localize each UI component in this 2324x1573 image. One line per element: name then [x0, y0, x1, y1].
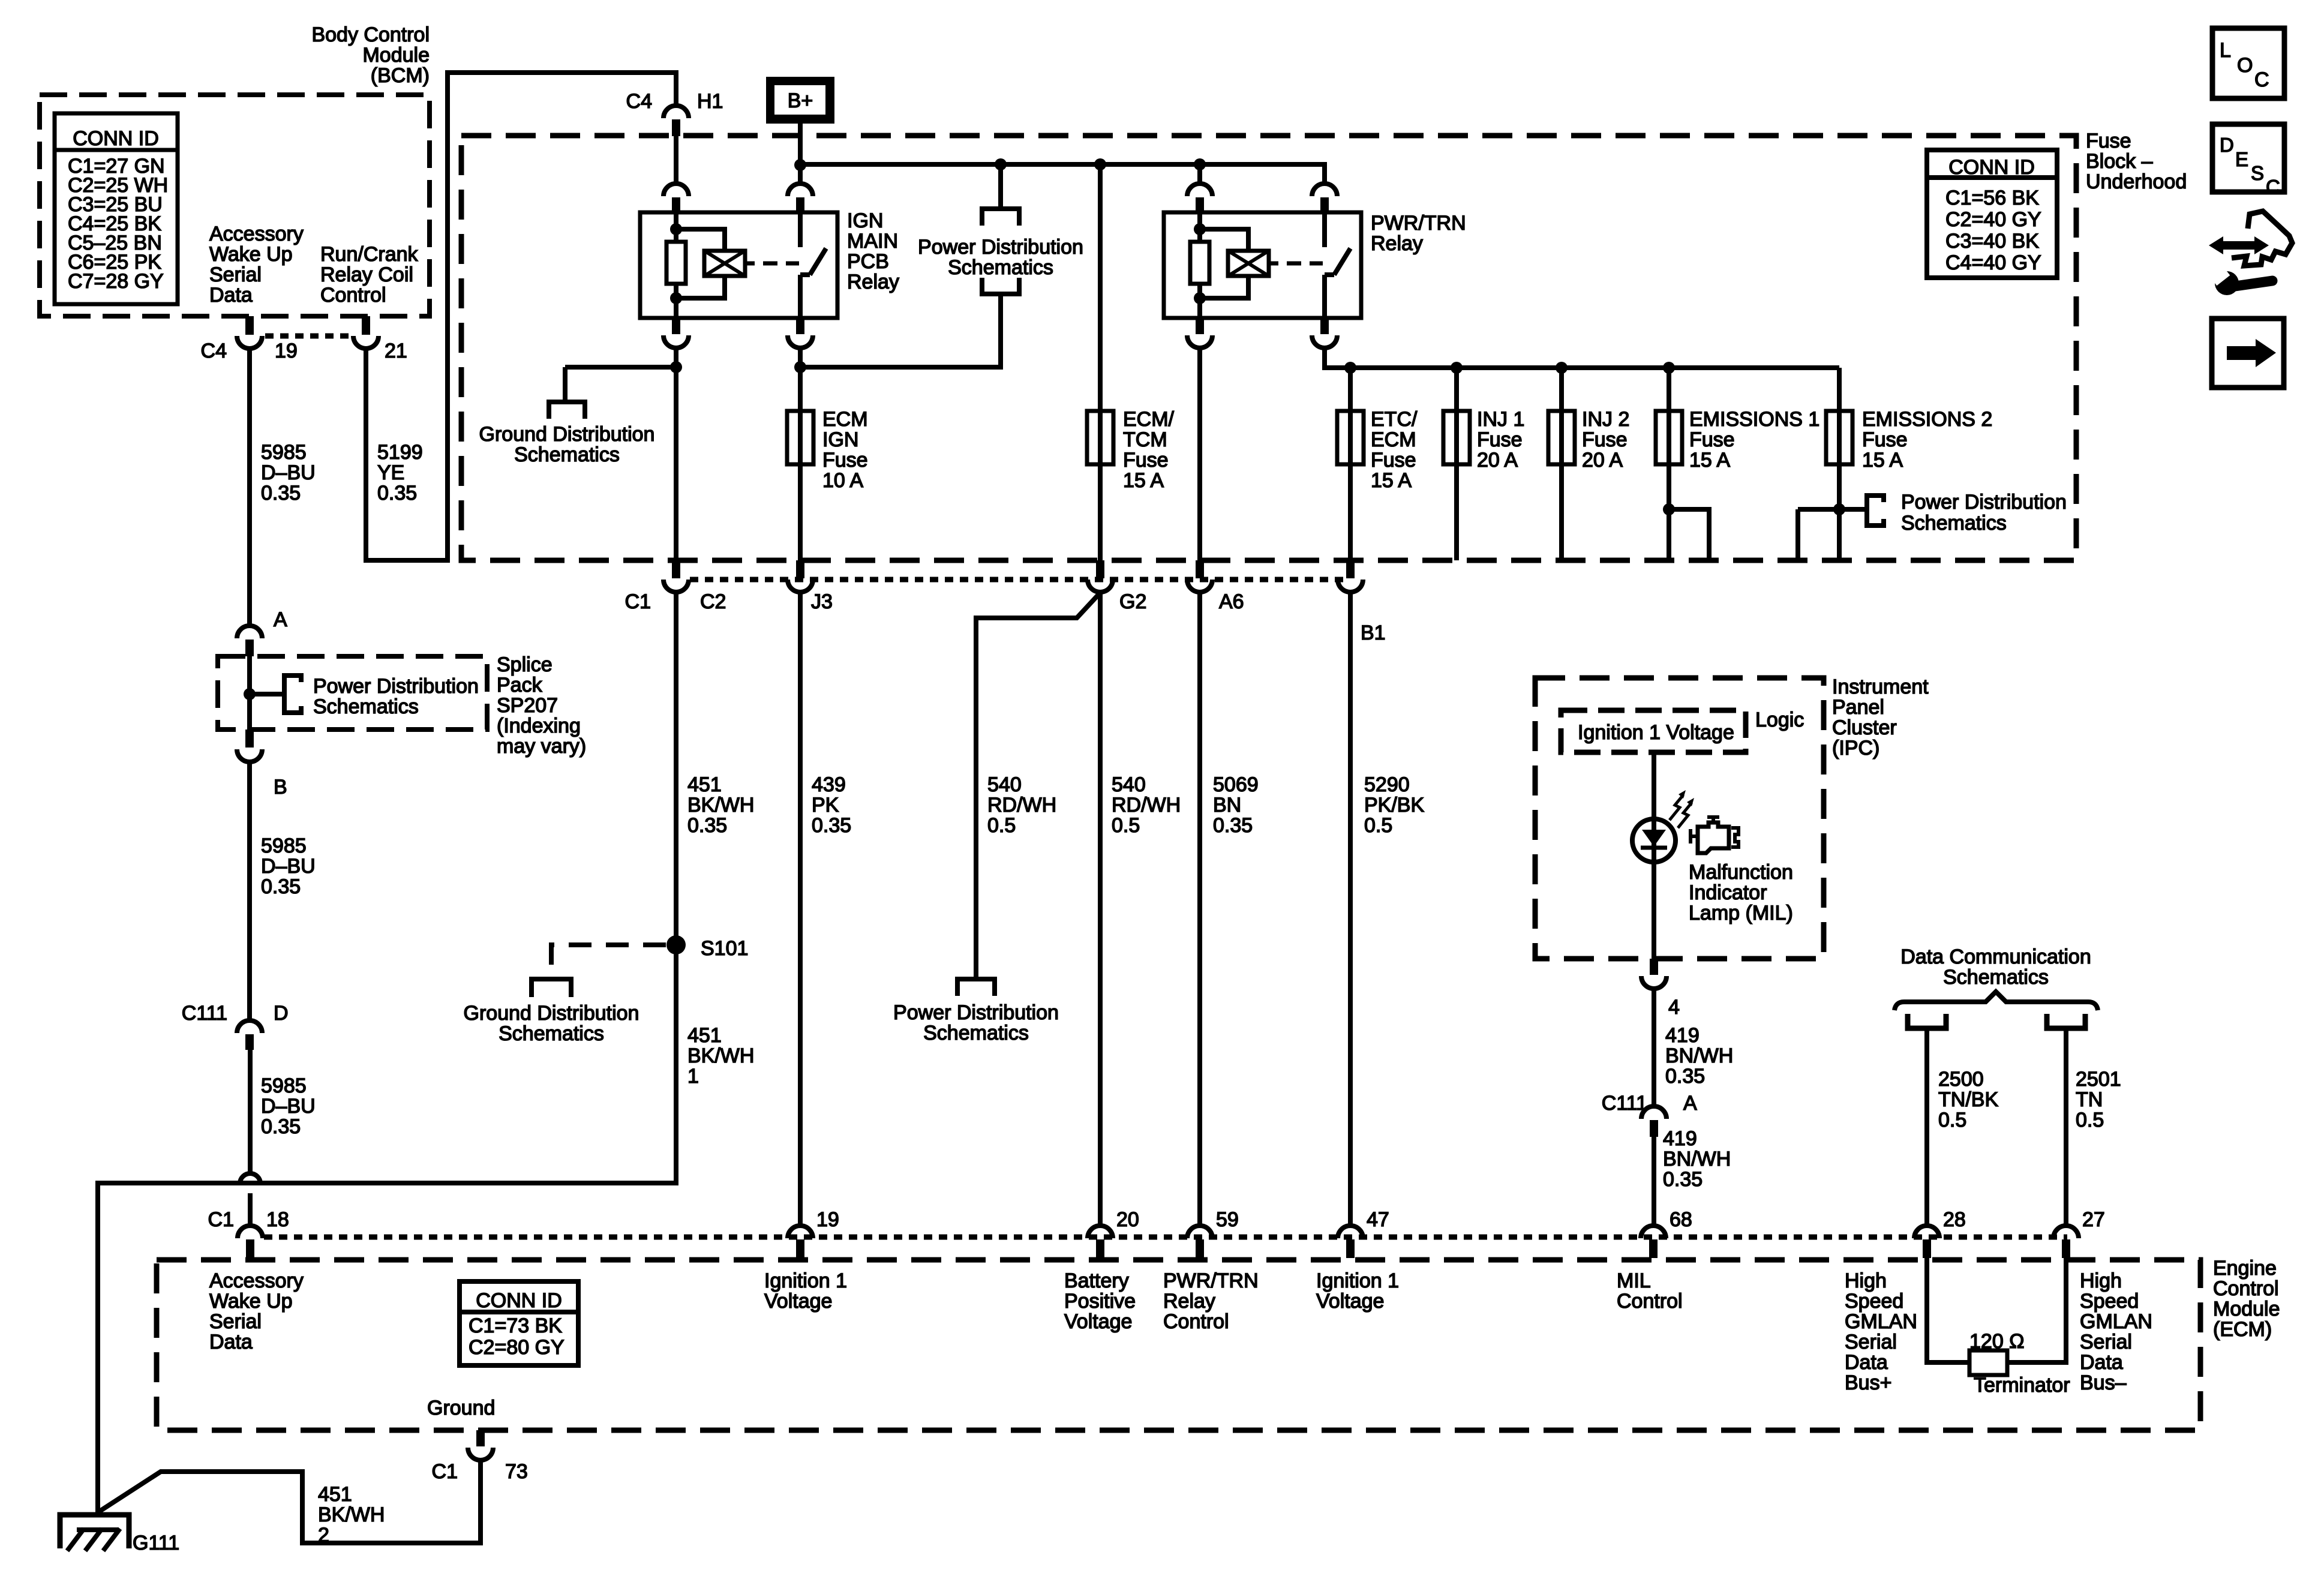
reference bracket Power Distribution (540 branch) [957, 979, 995, 996]
wire label 5985 D-BU 0.35 (top) [261, 441, 316, 505]
svg-text:5290: 5290 [1364, 773, 1410, 796]
coil branch wire (IGN MAIN) [676, 229, 725, 298]
ECM pin function text High Speed GMLAN Serial Data Bus+ [1845, 1269, 1917, 1394]
switched feed bus to fuses [1325, 348, 1839, 368]
svg-text:G2: G2 [1119, 590, 1146, 613]
ECM pin function text MIL Control [1617, 1269, 1683, 1313]
svg-text:0.5: 0.5 [1938, 1109, 1966, 1131]
label C111 [182, 1002, 227, 1025]
svg-text:Accessory: Accessory [209, 223, 304, 245]
fuse EMISSIONS 2 15 A [1826, 411, 1852, 464]
svg-text:Data: Data [2080, 1351, 2123, 1374]
ground G111 symbol [60, 1515, 129, 1551]
wire 2500 TN/BK to ECM pin 28 [1924, 1031, 1929, 1226]
ECM pin function text Accessory Wake Up Serial Data [209, 1269, 304, 1353]
svg-text:EMISSIONS 2: EMISSIONS 2 [1862, 408, 1992, 431]
svg-text:Fuse: Fuse [1123, 449, 1169, 472]
svg-text:Module: Module [2213, 1298, 2280, 1320]
wire label 5985 D-BU 0.35 (middle) [261, 834, 316, 898]
splice S101 [666, 935, 686, 954]
svg-text:High: High [2080, 1269, 2122, 1292]
label 19 [275, 340, 298, 362]
lamp rays [1670, 790, 1694, 828]
svg-text:YE: YE [377, 461, 404, 484]
connector bracket GMLAN bus- [2047, 1014, 2085, 1028]
label C2 [700, 590, 726, 613]
svg-text:Run/Crank: Run/Crank [320, 243, 419, 266]
wire label 451 BK/WH 1 [687, 1024, 754, 1088]
svg-text:Data: Data [209, 284, 253, 307]
svg-text:(Indexing: (Indexing [497, 715, 581, 737]
label 59 [1216, 1208, 1239, 1231]
fuse ECM IGN 10 A [787, 411, 813, 464]
svg-text:Block –: Block – [2086, 150, 2153, 173]
connector bracket GMLAN bus+ [1908, 1014, 1946, 1028]
svg-text:C3=40 BK: C3=40 BK [1945, 230, 2039, 253]
label C4 (H1) [626, 90, 652, 113]
svg-text:0.35: 0.35 [261, 1115, 301, 1138]
relay coil (IGN MAIN) [704, 251, 755, 276]
ECM pin function text PWR/TRN Relay Control [1163, 1269, 1259, 1333]
svg-text:0.5: 0.5 [987, 814, 1016, 837]
svg-text:0.35: 0.35 [377, 482, 417, 505]
wire IGN switch output down to J3 [798, 348, 803, 560]
splice pack label [497, 653, 586, 758]
BCM CONN ID table [55, 113, 178, 304]
svg-text:D–BU: D–BU [261, 1095, 316, 1118]
svg-text:PWR/TRN: PWR/TRN [1371, 212, 1466, 235]
svg-text:Fuse: Fuse [822, 449, 868, 472]
svg-text:IGN: IGN [822, 428, 858, 451]
reference bracket Ground Distribution (S101) [532, 979, 571, 997]
wire label 451 BK/WH 2 [318, 1483, 385, 1547]
text Malfunction Indicator Lamp (MIL) [1689, 861, 1793, 924]
text Power Distribution Schematics (top) [918, 236, 1083, 279]
label 18 [266, 1208, 289, 1231]
svg-text:Fuse: Fuse [1582, 428, 1628, 451]
svg-text:Bus–: Bus– [2080, 1371, 2127, 1394]
svg-text:Control: Control [1163, 1310, 1229, 1333]
label G2 [1119, 590, 1146, 613]
label C1 (ECM pin 18) [208, 1208, 234, 1231]
svg-text:0.35: 0.35 [1665, 1065, 1705, 1088]
svg-text:Schematics: Schematics [948, 256, 1053, 279]
wire 451 BK/WH 2 ground run [98, 1460, 481, 1543]
svg-text:Voltage: Voltage [1316, 1290, 1384, 1313]
svg-text:5985: 5985 [261, 441, 307, 464]
svg-text:Engine: Engine [2213, 1257, 2277, 1280]
svg-text:Terminator: Terminator [1974, 1374, 2070, 1397]
svg-text:(BCM): (BCM) [371, 64, 430, 87]
svg-text:Body Control: Body Control [311, 23, 430, 46]
label 120 ohm [1969, 1330, 2025, 1353]
label 68 [1670, 1208, 1692, 1231]
brace for data communication [1894, 992, 2098, 1010]
svg-text:ECM: ECM [822, 408, 868, 431]
svg-text:BN/WH: BN/WH [1663, 1148, 1731, 1170]
BCM module dashed box [40, 95, 430, 316]
wire inside splice pack [250, 656, 283, 730]
svg-text:(ECM): (ECM) [2213, 1318, 2272, 1341]
wire EMISSIONS 2 fuse column [1798, 368, 1867, 560]
svg-text:15 A: 15 A [1371, 469, 1412, 492]
wire IGN coil output down to C2 [674, 348, 678, 560]
wire label 5069 BN 0.35 [1213, 773, 1259, 837]
IPC pin 4 [1641, 959, 1667, 989]
svg-text:5985: 5985 [261, 1074, 307, 1097]
label 21 [385, 340, 407, 362]
ECM pin function text Battery Positive Voltage [1064, 1269, 1136, 1333]
svg-text:E: E [2235, 148, 2248, 170]
dashed link S101 to Ground Distribution [551, 945, 666, 979]
svg-text:19: 19 [816, 1208, 839, 1231]
ECM pin 47 [1338, 1226, 1363, 1258]
IGN MAIN PCB Relay label [847, 209, 899, 293]
svg-text:19: 19 [275, 340, 298, 362]
switch contact and blade (IGN MAIN) [800, 214, 826, 317]
node bus dot INJ 1 [1451, 362, 1463, 374]
svg-text:Data: Data [1845, 1351, 1888, 1374]
svg-text:Fuse: Fuse [1477, 428, 1523, 451]
BCM connector pin 19 (C4) [237, 316, 262, 349]
ECM pin 19 [788, 1226, 813, 1258]
svg-text:Underhood: Underhood [2086, 170, 2187, 193]
svg-text:GMLAN: GMLAN [1845, 1310, 1917, 1333]
svg-text:120 Ω: 120 Ω [1969, 1330, 2025, 1353]
svg-text:451: 451 [687, 773, 722, 796]
resistor (PWR/TRN relay) [1190, 242, 1209, 284]
ECM dashed box [157, 1260, 2200, 1430]
svg-text:Voltage: Voltage [1064, 1310, 1132, 1333]
LOC icon box [2212, 28, 2284, 98]
svg-text:0.35: 0.35 [1213, 814, 1253, 837]
fuse block pin C2 [663, 560, 689, 592]
label B1 [1361, 622, 1386, 644]
ECM pin 28 [1914, 1226, 1939, 1258]
svg-text:C1: C1 [208, 1208, 234, 1231]
relay pin into PWR/TRN (coil side) [1187, 164, 1212, 214]
connector B out of splice pack [237, 730, 262, 762]
connector H1 at fuse block top [663, 106, 689, 136]
node bus dot ETC/ECM [1344, 362, 1356, 374]
svg-text:73: 73 [505, 1460, 528, 1483]
svg-text:BN/WH: BN/WH [1665, 1044, 1733, 1067]
label A (C111) [1683, 1092, 1697, 1115]
svg-text:CONN ID: CONN ID [1948, 156, 2035, 179]
battery feed B+ box [766, 77, 834, 124]
svg-text:Ignition 1: Ignition 1 [764, 1269, 847, 1292]
svg-text:2: 2 [318, 1524, 329, 1547]
svg-text:Ignition 1 Voltage: Ignition 1 Voltage [1578, 721, 1734, 744]
svg-text:Schematics: Schematics [1943, 966, 2049, 989]
svg-text:5199: 5199 [377, 441, 423, 464]
splice pack SP207 dashed box [218, 656, 487, 730]
svg-text:PK: PK [812, 794, 839, 816]
svg-text:Schematics: Schematics [1901, 512, 2007, 535]
svg-text:15 A: 15 A [1689, 449, 1730, 472]
text Power Distribution Schematics (splice) [313, 675, 479, 718]
svg-text:10 A: 10 A [822, 469, 863, 492]
connector C111 A [1641, 1106, 1667, 1137]
ECM pin 68 [1641, 1226, 1666, 1258]
ECM ground pin 73 [468, 1430, 493, 1460]
fuse EMISSIONS 2 label [1862, 408, 1992, 472]
svg-text:Power Distribution: Power Distribution [893, 1001, 1059, 1024]
wire 419 from IPC to C111 A [1652, 989, 1656, 1106]
svg-text:15 A: 15 A [1123, 469, 1164, 492]
svg-text:28: 28 [1943, 1208, 1966, 1231]
wire 5199 from BCM pin 21 up over to fuse block H1 [366, 73, 676, 560]
svg-text:Speed: Speed [2080, 1290, 2139, 1313]
svg-text:419: 419 [1663, 1127, 1697, 1150]
svg-text:Schematics: Schematics [499, 1022, 604, 1045]
svg-text:Fuse: Fuse [1371, 449, 1416, 472]
svg-text:2500: 2500 [1938, 1068, 1984, 1091]
label 4 [1668, 996, 1680, 1019]
svg-text:Relay: Relay [1371, 232, 1423, 255]
svg-text:S: S [2251, 162, 2264, 184]
svg-text:MIL: MIL [1617, 1269, 1651, 1292]
svg-text:419: 419 [1665, 1024, 1700, 1047]
svg-text:C111: C111 [1602, 1092, 1647, 1115]
ECM pin function text Ignition 1 Voltage (pin 47) [1316, 1269, 1399, 1313]
relay PWR/TRN box [1164, 212, 1361, 318]
label 28 [1943, 1208, 1966, 1231]
svg-text:20: 20 [1116, 1208, 1139, 1231]
svg-text:C2: C2 [700, 590, 726, 613]
Fuse Block - Underhood dashed box [461, 136, 2076, 560]
text Ground Distribution Schematics (S101) [464, 1002, 639, 1045]
svg-text:PWR/TRN: PWR/TRN [1163, 1269, 1259, 1292]
wire 540 RD/WH from G2 to ECM pin 20 [1098, 592, 1103, 1226]
fuse INJ 2 20 A [1548, 411, 1575, 464]
svg-text:ETC/: ETC/ [1371, 408, 1418, 431]
svg-text:C111: C111 [182, 1002, 227, 1025]
svg-text:Control: Control [2213, 1277, 2279, 1300]
svg-text:ECM/: ECM/ [1123, 408, 1175, 431]
svg-text:Splice: Splice [497, 653, 553, 676]
node bus dot EMISSIONS 1 [1663, 362, 1675, 374]
label C111 (A) [1602, 1092, 1647, 1115]
wire to Ground Distribution bracket [565, 367, 676, 402]
wire label 5199 YE 0.35 [377, 441, 423, 505]
svg-text:Ground Distribution: Ground Distribution [464, 1002, 639, 1025]
svg-text:Ground Distribution: Ground Distribution [479, 423, 655, 446]
node bus junction PDS [995, 158, 1007, 170]
svg-text:C4: C4 [626, 90, 652, 113]
svg-text:540: 540 [1112, 773, 1146, 796]
svg-text:IGN: IGN [847, 209, 883, 232]
coil branch wire (PWR/TRN) [1200, 229, 1248, 298]
svg-text:Accessory: Accessory [209, 1269, 304, 1292]
wire INJ 2 fuse column [1559, 368, 1564, 560]
svg-text:D: D [2220, 134, 2234, 156]
svg-text:SP207: SP207 [497, 694, 558, 717]
svg-text:C1: C1 [625, 590, 651, 613]
node coil bottom (PWR/TRN) [1194, 292, 1206, 304]
svg-text:L: L [2220, 39, 2231, 62]
relay pin into IGN MAIN (coil side, from H1) [663, 136, 689, 214]
text Power Distribution Schematics (emissions) [1901, 491, 2067, 535]
svg-text:O: O [2237, 54, 2253, 77]
svg-text:Control: Control [320, 284, 386, 307]
svg-text:Voltage: Voltage [764, 1290, 832, 1313]
BCM connector dotted row [265, 334, 352, 339]
wire link to Power Distribution reference [800, 164, 1001, 367]
bus wire from B+ to PWR/TRN relay [800, 164, 1325, 184]
label Ground (ECM) [427, 1397, 495, 1419]
svg-text:20 A: 20 A [1582, 449, 1623, 472]
relay IGN MAIN PCB box [640, 212, 837, 318]
svg-text:Relay Coil: Relay Coil [320, 263, 413, 286]
wire 5290 PK/BK from B1 to ECM pin 47 [1348, 592, 1353, 1226]
svg-text:RD/WH: RD/WH [987, 794, 1056, 816]
svg-text:0.35: 0.35 [1663, 1168, 1703, 1191]
text Ground Distribution Schematics (fuse block) [479, 423, 655, 466]
relay output pin (IGN MAIN coil side) [663, 318, 689, 348]
svg-text:B: B [274, 776, 287, 798]
wire PWR coil output down to A6 [1197, 348, 1202, 560]
ECM pin function text Ignition 1 Voltage (pin 19) [764, 1269, 847, 1313]
BCM pin text: Run/Crank Relay Coil Control [320, 243, 419, 307]
svg-text:Control: Control [1617, 1290, 1683, 1313]
wire label 540 RD/WH 0.5 [1112, 773, 1181, 837]
label C1 (ground) [432, 1460, 458, 1483]
svg-text:RD/WH: RD/WH [1112, 794, 1181, 816]
wire EMISSIONS 1 fuse column [1669, 368, 1709, 560]
svg-text:0.5: 0.5 [1364, 814, 1392, 837]
relay output pin (IGN MAIN switch side) [788, 318, 813, 348]
fuse INJ 1 20 A [1443, 411, 1470, 464]
arrow icon box [2212, 319, 2284, 388]
ECM pin 20 [1088, 1226, 1113, 1258]
Fuse Block - Underhood title [2086, 130, 2187, 193]
svg-text:Relay: Relay [847, 271, 899, 293]
wire ECM/TCM fuse column [1098, 164, 1103, 560]
svg-text:4: 4 [1668, 996, 1680, 1019]
svg-text:Malfunction: Malfunction [1689, 861, 1793, 884]
svg-text:59: 59 [1216, 1208, 1239, 1231]
svg-text:0.35: 0.35 [261, 482, 301, 505]
wire label 2501 TN 0.5 [2076, 1068, 2121, 1131]
wire B+ down into fuse block [798, 124, 803, 184]
svg-text:0.35: 0.35 [687, 814, 727, 837]
node bus junction B+ [794, 159, 806, 171]
wire from logic to MIL lamp [1652, 752, 1656, 959]
PWR/TRN coil-side wire inside relay [1197, 214, 1202, 317]
node splice junction [244, 688, 256, 700]
svg-text:C: C [2266, 176, 2280, 198]
svg-text:Ground: Ground [427, 1397, 495, 1419]
svg-text:ECM: ECM [1371, 428, 1416, 451]
wire INJ 1 fuse column [1454, 368, 1459, 560]
fuse block pin B1 [1338, 560, 1363, 592]
wire label 439 PK 0.35 [812, 773, 851, 837]
svg-text:2501: 2501 [2076, 1068, 2121, 1091]
label 19 [816, 1208, 839, 1231]
MIL lamp (LED) [1632, 819, 1676, 862]
IPC title [1832, 676, 1929, 760]
svg-text:C1: C1 [432, 1460, 458, 1483]
svg-text:Serial: Serial [1845, 1331, 1897, 1353]
wire label 419 BN/WH 0.35 (lower) [1663, 1127, 1731, 1191]
wire label 451 BK/WH 0.35 [687, 773, 754, 837]
svg-text:27: 27 [2082, 1208, 2105, 1231]
fuse ECM/TCM label [1123, 408, 1175, 492]
svg-text:439: 439 [812, 773, 846, 796]
ECM CONN ID table [460, 1281, 578, 1365]
svg-text:Fuse: Fuse [1862, 428, 1908, 451]
svg-text:BK/WH: BK/WH [318, 1503, 385, 1526]
svg-text:Wake Up: Wake Up [209, 243, 293, 266]
ECM pin function text High Speed GMLAN Serial Data Bus- [2080, 1269, 2152, 1394]
svg-text:15 A: 15 A [1862, 449, 1903, 472]
fuse block connector dotted row [690, 577, 1350, 583]
relay pin into PWR/TRN (switch side) [1312, 184, 1337, 214]
label A [274, 608, 287, 631]
svg-text:Serial: Serial [209, 1310, 262, 1333]
label S101 [701, 937, 748, 960]
svg-text:Lamp (MIL): Lamp (MIL) [1689, 902, 1793, 924]
fuse block pin J3 [788, 560, 813, 592]
svg-text:TCM: TCM [1123, 428, 1167, 451]
ECM pin 27 [2053, 1226, 2079, 1258]
svg-text:B+: B+ [788, 89, 813, 112]
wire 5985 from B to C111 D [247, 762, 252, 1020]
svg-text:Instrument: Instrument [1832, 676, 1929, 698]
wire label 5290 PK/BK 0.5 [1364, 773, 1424, 837]
relay output pin (PWR/TRN coil side) [1187, 318, 1212, 348]
wire label 2500 TN/BK 0.5 [1938, 1068, 1998, 1131]
svg-text:47: 47 [1367, 1208, 1389, 1231]
wire crossover hop [240, 1173, 260, 1184]
svg-text:Module: Module [362, 44, 430, 67]
svg-text:1: 1 [687, 1065, 699, 1088]
svg-text:EMISSIONS 1: EMISSIONS 1 [1689, 408, 1819, 431]
wire ETC/ECM fuse column [1348, 368, 1353, 560]
svg-text:C2=40 GY: C2=40 GY [1945, 208, 2041, 231]
Ignition 1 Voltage dashed box [1561, 710, 1746, 752]
svg-text:Pack: Pack [497, 674, 543, 697]
svg-text:Battery: Battery [1064, 1269, 1129, 1292]
resistor 120 ohm terminator [1969, 1350, 2007, 1375]
label J3 [811, 590, 833, 613]
svg-text:Cluster: Cluster [1832, 716, 1897, 739]
fuse ETC/ECM 15 A [1337, 411, 1364, 464]
fuse INJ 2 label [1582, 408, 1629, 472]
node coil bottom (IGN MAIN) [670, 292, 682, 304]
svg-text:540: 540 [987, 773, 1022, 796]
svg-text:Speed: Speed [1845, 1290, 1903, 1313]
svg-text:C2=80 GY: C2=80 GY [469, 1336, 565, 1359]
text Ignition 1 Voltage [1578, 721, 1734, 744]
reference bracket Power Distribution Schematics (splice) [284, 673, 301, 715]
wire 419 from C111 A to ECM pin 68 [1652, 1137, 1656, 1226]
reference bracket pair Power Distribution Schematics (top) [982, 209, 1019, 294]
label G111 [133, 1532, 179, 1554]
svg-text:Ignition 1: Ignition 1 [1316, 1269, 1399, 1292]
fuse ECM IGN label [822, 408, 868, 492]
svg-text:Data Communication: Data Communication [1900, 945, 2091, 968]
svg-text:0.5: 0.5 [1112, 814, 1140, 837]
BCM pin text: Accessory Wake Up Serial Data [209, 223, 304, 307]
svg-text:C4=40 GY: C4=40 GY [1945, 251, 2041, 274]
wire label 419 BN/WH 0.35 (upper) [1665, 1024, 1733, 1088]
label 47 [1367, 1208, 1389, 1231]
svg-text:D–BU: D–BU [261, 855, 316, 878]
BCM title [311, 23, 430, 87]
relay coil (PWR/TRN) [1228, 251, 1278, 276]
